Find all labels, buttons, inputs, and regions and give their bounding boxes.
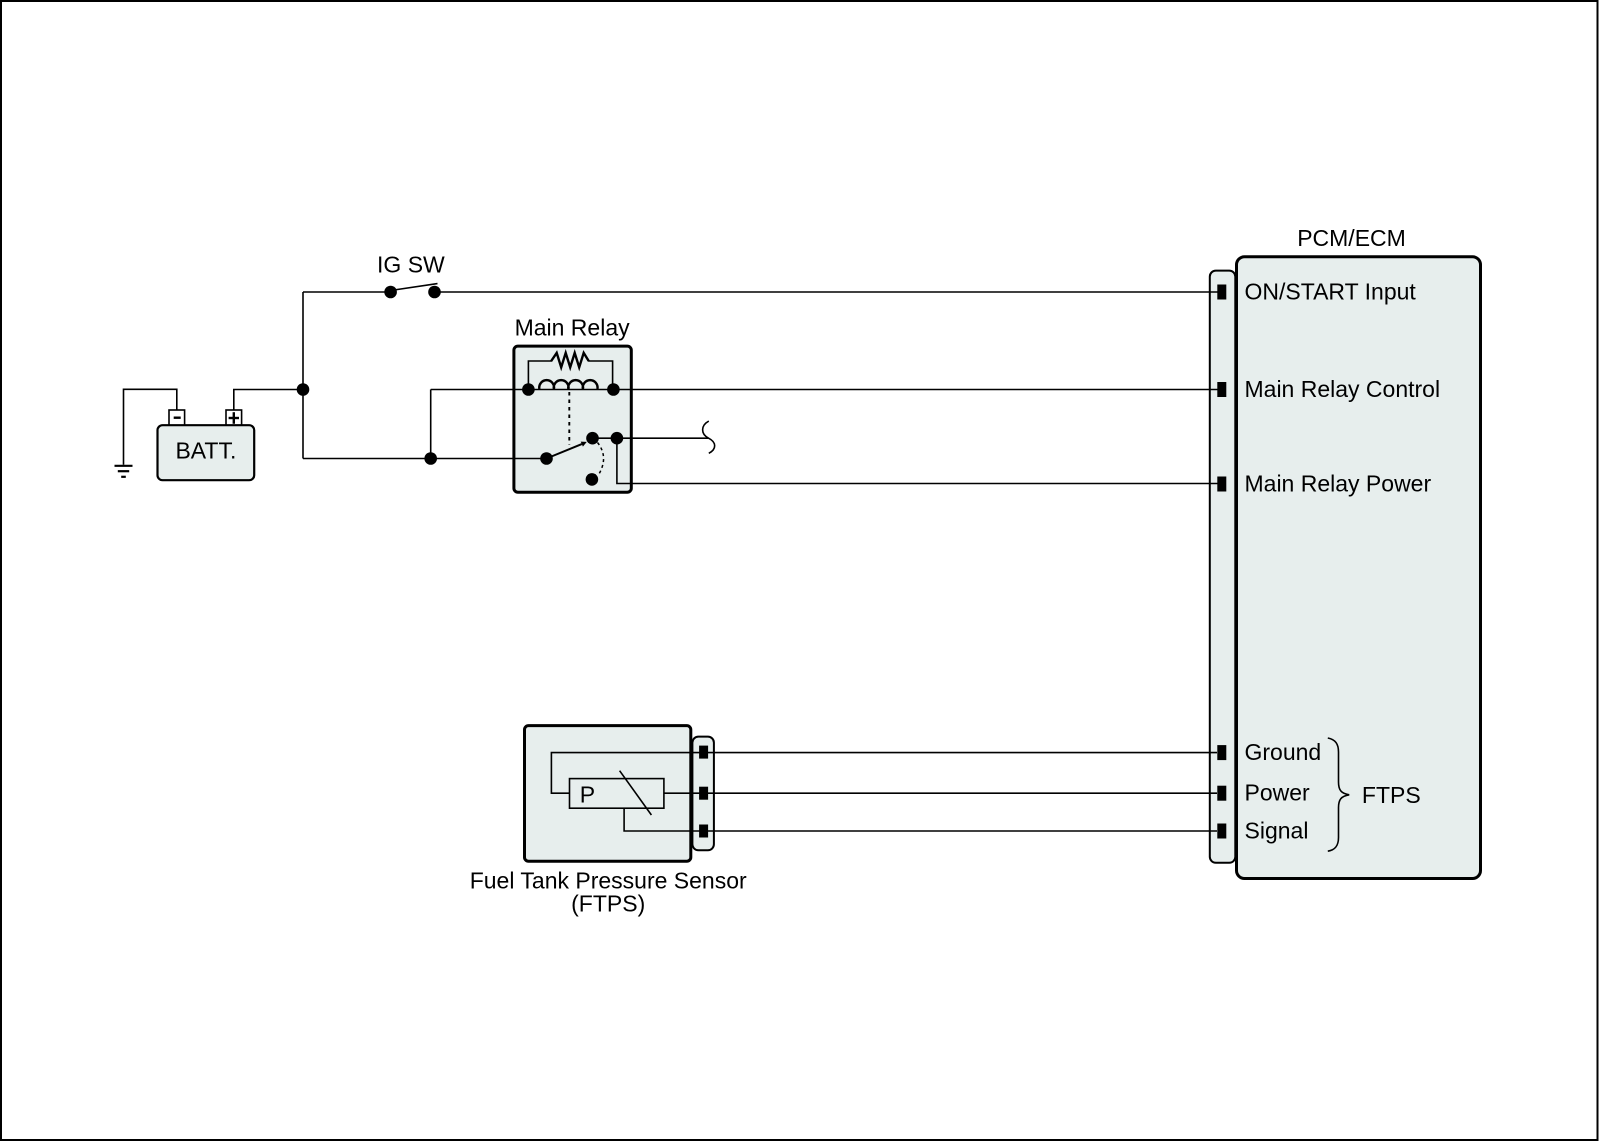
pin Power (1217, 786, 1226, 801)
pin Main Relay Power (1217, 477, 1226, 492)
open-end squiggle (703, 421, 715, 453)
svg-text:PCM/ECM: PCM/ECM (1297, 225, 1406, 251)
svg-text:Main Relay: Main Relay (515, 315, 631, 341)
svg-text:Power: Power (1245, 780, 1311, 806)
svg-text:IG SW: IG SW (377, 252, 445, 278)
wire sensor power internal (664, 792, 700, 794)
node battery junction (297, 383, 310, 396)
battery BATT. (158, 410, 255, 480)
variable slash (620, 771, 652, 815)
wire FTPS ground to PCM (704, 752, 1217, 754)
wire battery negative to ground (124, 389, 177, 464)
wire sensor ground internal (551, 753, 700, 794)
wire FTPS signal to PCM (704, 830, 1217, 832)
FTPS pin ground (699, 746, 708, 759)
node NO contact (586, 432, 599, 445)
node lower junction (424, 452, 437, 465)
wire IG SW to PCM ON/START input (435, 291, 1223, 293)
wire to IG SW (303, 291, 388, 293)
FTPS pin signal (699, 825, 708, 838)
wire sensor signal internal (624, 808, 700, 831)
svg-text:BATT.: BATT. (175, 437, 236, 463)
resistor (parallel with coil) (528, 361, 552, 386)
switch IG SW (377, 252, 445, 299)
svg-text:Main Relay Power: Main Relay Power (1245, 471, 1432, 497)
node NC contact (586, 473, 599, 486)
wire relay coil to PCM Main Relay Control (431, 389, 1222, 391)
pin ON/START (1217, 285, 1226, 300)
FTPS sensor box (525, 726, 691, 862)
wire NO contact to open end (593, 437, 709, 439)
wire junction to relay coil (430, 390, 432, 459)
svg-text:Ground: Ground (1245, 739, 1322, 765)
wire battery positive (234, 390, 299, 411)
wire lower feed to relay switch (303, 458, 547, 460)
ground (115, 466, 133, 477)
dashed throw arc (598, 443, 604, 475)
pin Ground (1217, 745, 1226, 760)
node coil right pin (607, 383, 620, 396)
pressure element (570, 779, 664, 809)
relay armature dashed link (568, 392, 570, 445)
svg-text:FTPS: FTPS (1362, 782, 1421, 808)
wire ignition feed vertical (302, 292, 304, 459)
relay Main Relay box (514, 346, 631, 492)
wire FTPS power to PCM (704, 792, 1217, 794)
relay switch arm (540, 442, 587, 465)
PCM/ECM box (1237, 257, 1481, 879)
svg-text:Signal: Signal (1245, 818, 1309, 844)
inductor coil (539, 380, 597, 389)
node relay output contact (611, 432, 624, 445)
node coil left pin (522, 383, 535, 396)
svg-text:Main Relay Control: Main Relay Control (1245, 376, 1441, 402)
FTPS pin power (699, 787, 708, 800)
FTPS connector tab (692, 737, 714, 851)
wire relay power to PCM (617, 438, 1222, 483)
svg-text:ON/START Input: ON/START Input (1245, 279, 1417, 305)
pin Signal (1217, 824, 1226, 839)
PCM connector strip (1210, 271, 1236, 863)
svg-text:(FTPS): (FTPS) (571, 891, 645, 917)
pin Main Relay Control (1217, 382, 1226, 397)
svg-text:P: P (580, 782, 595, 808)
brace FTPS (1328, 738, 1349, 851)
